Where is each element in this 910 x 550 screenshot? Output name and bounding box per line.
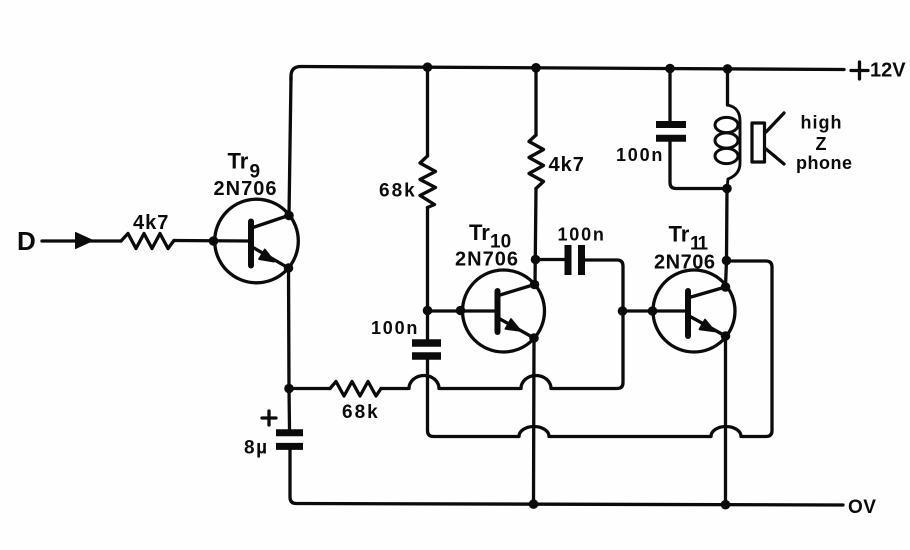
node dot Tr11 collector (721, 282, 731, 292)
label 68k feedback (342, 402, 380, 423)
wire rail to 4k7 (534, 68, 537, 135)
wire rail to 100n output cap (668, 69, 671, 122)
label 100n coupling (558, 225, 606, 245)
label 2N706 Tr9 (214, 178, 278, 200)
svg-text:100n: 100n (371, 318, 419, 338)
wire input from D (42, 239, 121, 242)
wire 8u top (287, 389, 291, 430)
node dot rail coil top (723, 64, 733, 74)
label Tr9 (228, 149, 261, 183)
svg-text:Z: Z (816, 134, 827, 154)
node dot Tr10 emitter 0V (529, 499, 539, 509)
wire Tr9 collector to rail (289, 77, 291, 216)
wire Tr10 emitter to 0V (532, 338, 536, 504)
phone top diagonal (766, 113, 784, 132)
label 0V (848, 497, 876, 518)
node dot Tr10 emitter (529, 333, 539, 343)
transistor Tr10 collector line (500, 285, 535, 296)
svg-text:Tr: Tr (469, 220, 490, 245)
node dot Tr11 base wire (648, 306, 658, 316)
transistor Q Tr11 circle (653, 270, 735, 352)
node dot rail 68k top (423, 62, 433, 72)
wire Tr10 collector to 100n coupling (536, 258, 565, 261)
transistor Tr11 emitter arrow (700, 320, 715, 332)
label 2N706 Tr10 (455, 249, 519, 271)
node dot Tr11 emitter 0V (721, 500, 731, 510)
transistor Tr11 emitter line (691, 317, 726, 336)
transistor Tr10 base bar (495, 291, 501, 332)
label 100n first (371, 318, 419, 338)
node dot rail 4k7 top (531, 63, 541, 73)
svg-text:OV: OV (848, 497, 876, 518)
inductor coil loop 1 (715, 117, 738, 132)
transistor Tr9 emitter arrow (259, 250, 274, 262)
wire Tr9 emitter down (287, 268, 291, 389)
transistor Tr10 emitter line (500, 319, 534, 338)
transistor Q Tr9 circle (215, 199, 299, 283)
inductor coil loop 3 (715, 148, 738, 163)
label Tr11 (669, 222, 709, 255)
node dot Tr10 base junction (423, 306, 433, 316)
node dot emitter-68k junction (284, 384, 294, 394)
label Tr10 (469, 220, 511, 253)
svg-text:Tr: Tr (228, 149, 249, 174)
node dot Tr10 collector (530, 280, 540, 290)
svg-text:8µ: 8µ (244, 438, 269, 459)
svg-text:2N706: 2N706 (214, 178, 278, 200)
wire Tr11 emitter to 0V (724, 336, 727, 505)
label 4k7 collector load (549, 154, 585, 176)
wire 68k feedback right with hops to Tr11 base node (381, 260, 623, 389)
wire node to 68k feedback (289, 387, 330, 390)
phone transducer rectangle (752, 123, 765, 162)
transistor Tr11 collector line (691, 287, 726, 297)
node dot Tr9 collector (284, 211, 294, 221)
node dot coil bottom junction (722, 184, 732, 194)
wire +12V rail (291, 67, 844, 81)
label +12V plus sign (851, 62, 868, 79)
resistor 4k7 input (121, 234, 174, 249)
node dot rail 100n top (665, 64, 675, 74)
svg-text:high: high (801, 113, 843, 133)
resistor 68k feedback (330, 382, 381, 397)
wire coil junction down to Tr11 collector (726, 189, 728, 288)
transistor Tr11 base bar (685, 291, 691, 336)
svg-text:68k: 68k (342, 402, 380, 423)
label +12V text (870, 60, 906, 82)
resistor 68k bias vertical (420, 156, 436, 208)
svg-text:100n: 100n (616, 145, 664, 165)
transistor Tr10 emitter arrow (506, 319, 521, 331)
node dot base Tr9 (209, 236, 219, 246)
label + polarity 8u (262, 411, 276, 425)
svg-text:4k7: 4k7 (549, 154, 585, 176)
node dot Tr11 collector feedback junction (722, 256, 732, 266)
svg-text:68k: 68k (379, 181, 417, 202)
wire 4k7 to Tr9 base (174, 239, 250, 243)
wire 68k to Tr10 base node (426, 208, 429, 341)
node dot Tr9 emitter (284, 263, 294, 273)
capacitor 8u electrolytic plates (276, 433, 303, 447)
transistor Tr9 collector line (253, 216, 289, 228)
label 100n output (616, 145, 664, 165)
wire Tr10 base (428, 309, 495, 312)
svg-text:Tr: Tr (669, 222, 690, 247)
capacitor 100n output plates (656, 125, 686, 139)
svg-text:4k7: 4k7 (133, 212, 169, 234)
label 2N706 Tr11 (654, 252, 715, 274)
transistor Tr9 base bar (248, 222, 254, 266)
node dot Tr10 collector cap tap (531, 255, 541, 265)
phone bottom diagonal (766, 149, 784, 164)
arrow input signal (76, 233, 94, 249)
inductor coil loop 2 (715, 133, 738, 148)
wire rail to coil (726, 69, 729, 105)
resistor 4k7 collector load (529, 135, 544, 189)
label high Z phone (796, 113, 853, 174)
node dot Tr11 emitter (721, 331, 731, 341)
capacitor 100n first plates (412, 343, 441, 356)
node dot Tr10 base wire (456, 306, 466, 316)
wire 100n output bottom (670, 138, 727, 188)
node D input label (17, 226, 36, 256)
svg-text:D: D (17, 226, 36, 256)
label 8u value (244, 438, 269, 459)
wire 0V rail (290, 450, 843, 505)
svg-text:100n: 100n (558, 225, 606, 245)
svg-text:2N706: 2N706 (654, 252, 715, 274)
inductor phone coil backbone (727, 105, 740, 189)
transistor Tr9 emitter line (253, 248, 289, 269)
node dot Tr11 base junction (618, 306, 628, 316)
label 4k7 input (133, 212, 169, 234)
label 68k bias (379, 181, 417, 202)
capacitor 100n coupling plates (568, 245, 582, 275)
svg-text:12V: 12V (870, 60, 906, 82)
svg-text:phone: phone (796, 153, 853, 173)
wire 4k7 to Tr10 collector (535, 189, 536, 285)
svg-text:2N706: 2N706 (455, 249, 519, 271)
wire rail to 68k (426, 67, 429, 156)
wire 100n first bottom along to Tr11 collector (428, 261, 773, 437)
wire to Tr11 base (623, 309, 686, 312)
transistor Q Tr10 circle (463, 270, 545, 352)
